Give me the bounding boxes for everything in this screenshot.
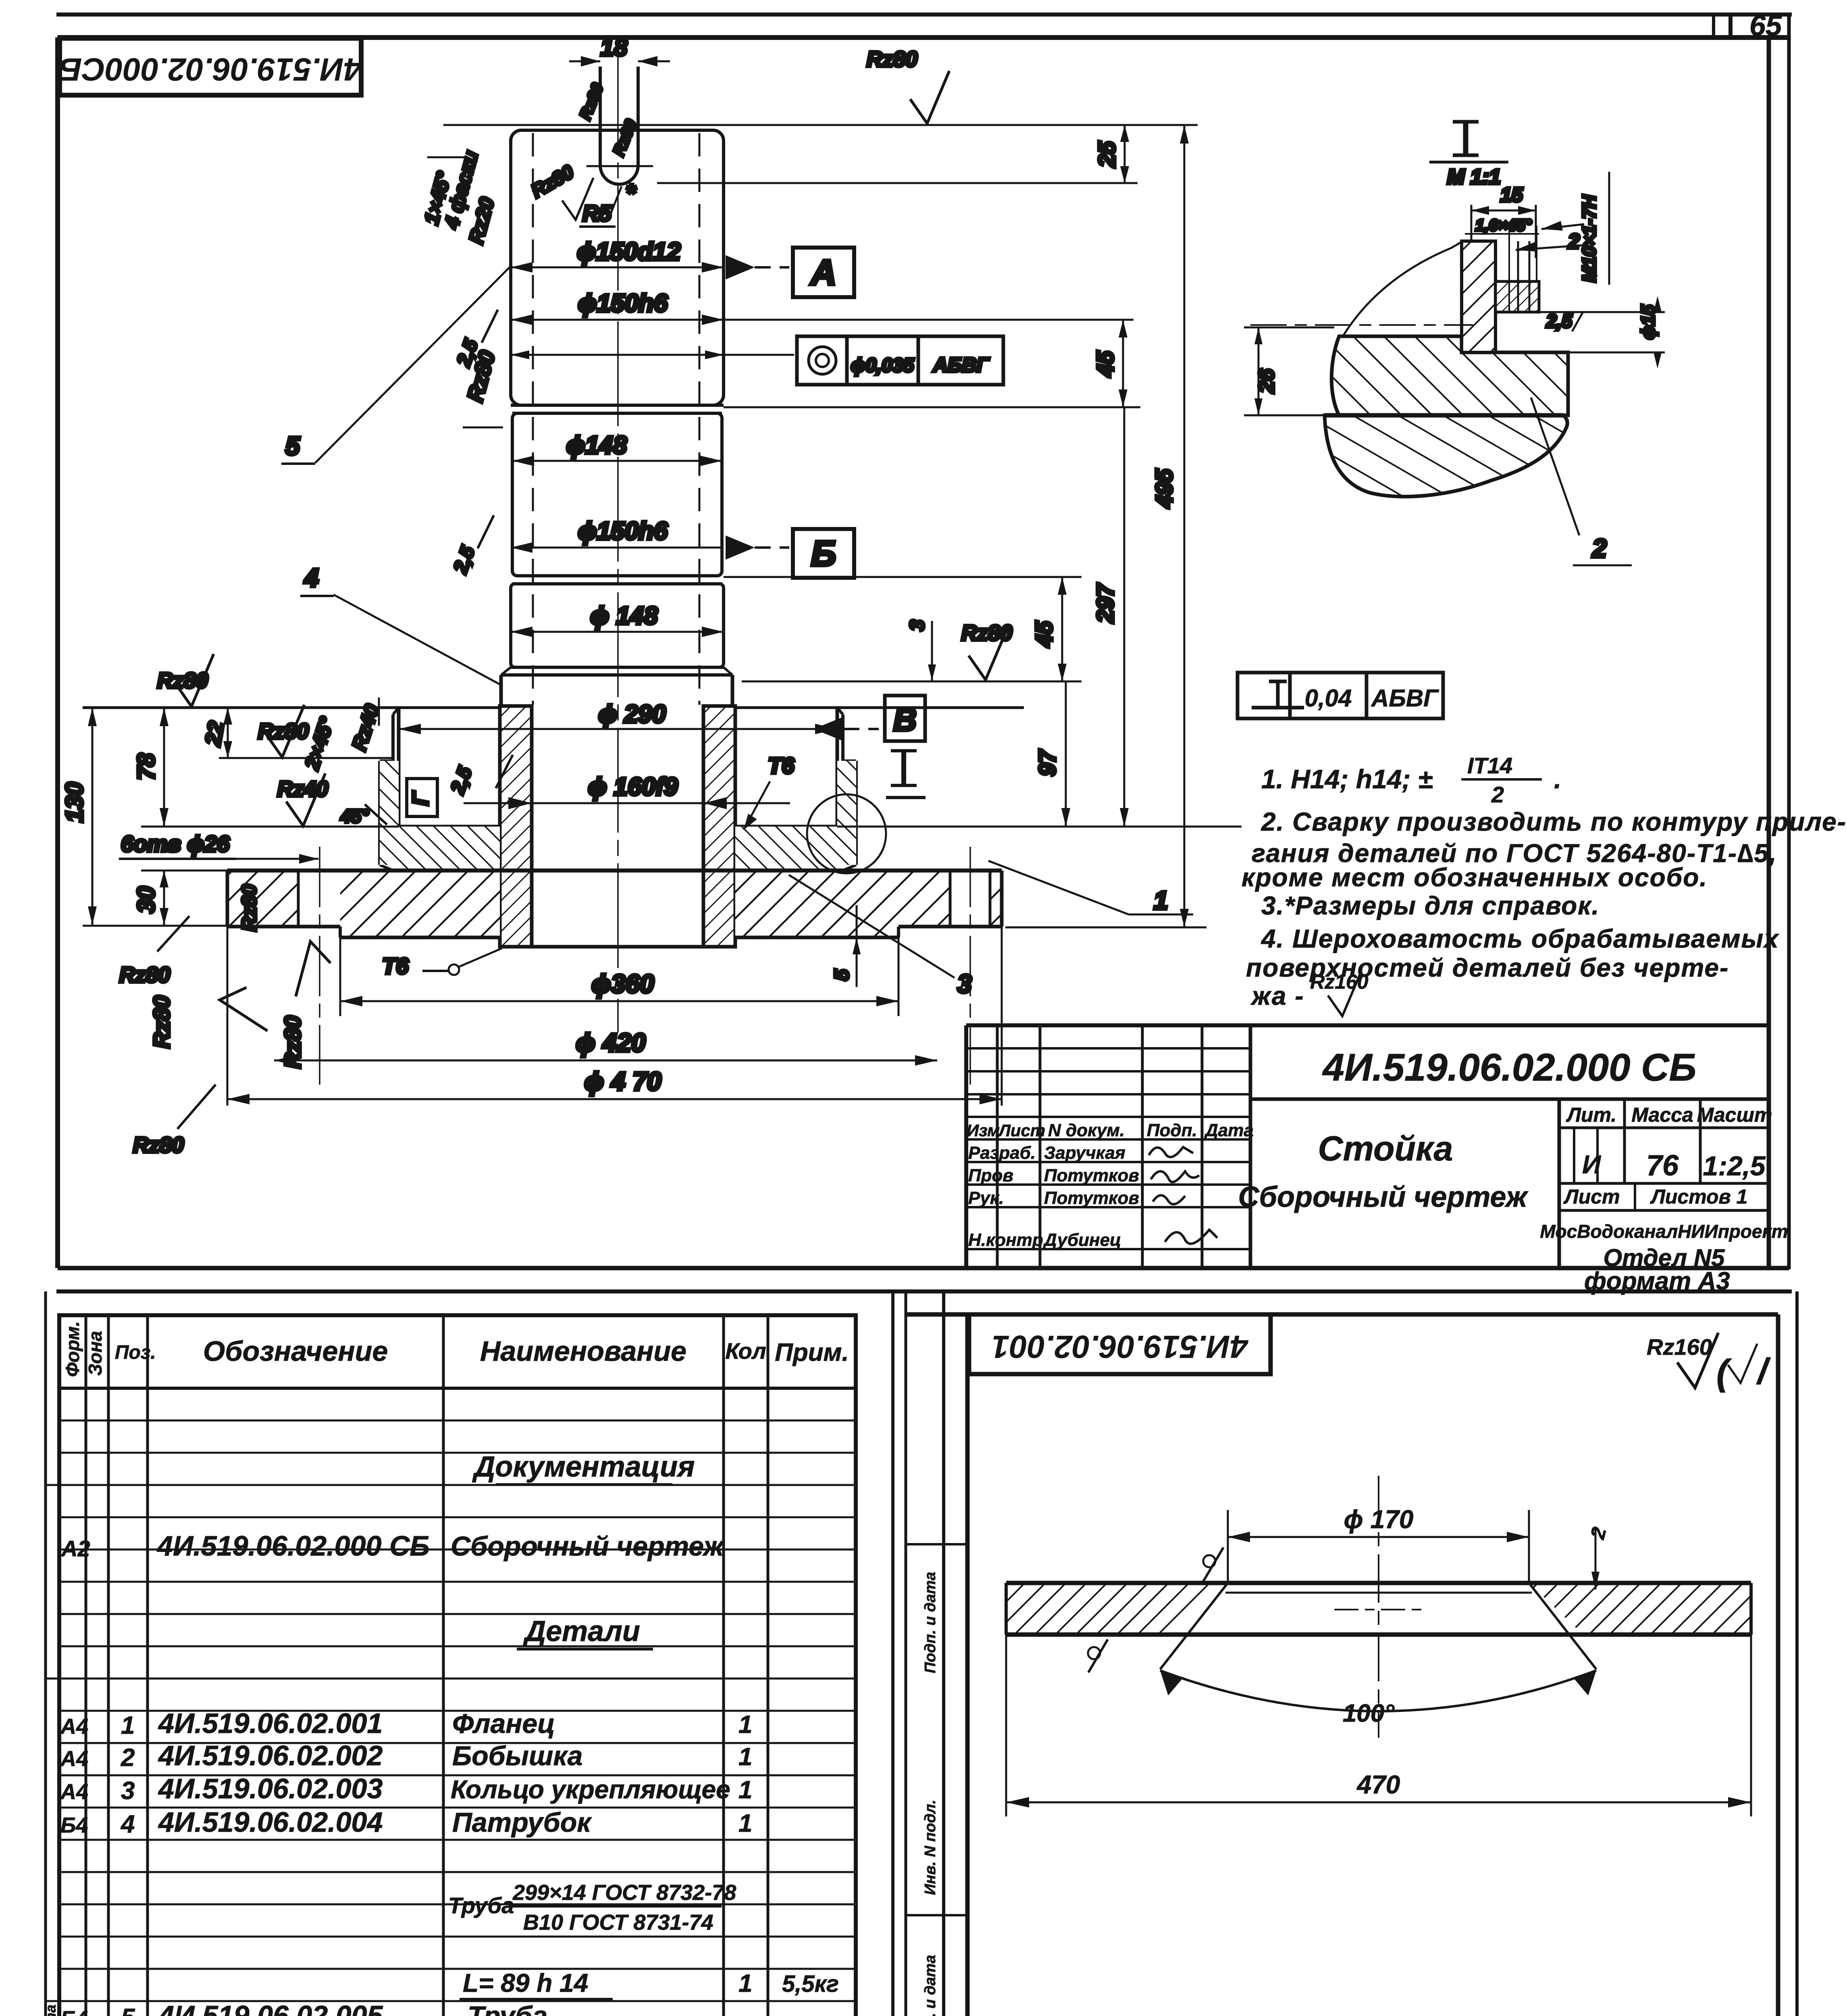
section arrow B [813, 717, 843, 741]
svg-text:4: 4 [120, 1810, 135, 1838]
svg-text:ϕ 160f9: ϕ 160f9 [588, 773, 678, 801]
svg-text:ϕ150d12: ϕ150d12 [577, 238, 680, 266]
phi15 bore lines [1495, 311, 1665, 313]
divider between bottom sheets [891, 1291, 894, 2016]
svg-text:Т6: Т6 [382, 953, 409, 979]
dim 18 over keyway [569, 60, 600, 62]
slot-bottom extension line [657, 182, 1138, 184]
top sheet frame left [55, 37, 60, 1268]
right sheet frame left [965, 1314, 970, 2016]
svg-text:1,6×45°: 1,6×45° [1475, 217, 1532, 234]
svg-text:Т6: Т6 [768, 753, 795, 778]
svg-text:97: 97 [1034, 749, 1061, 776]
svg-text:Разраб.: Разраб. [968, 1143, 1036, 1163]
ring pos.3 hatch right [837, 761, 856, 865]
svg-text:495: 495 [1151, 469, 1177, 508]
tube section 1 (pos.5 pipe top) [511, 130, 724, 405]
svg-text:ϕ0,035: ϕ0,035 [851, 355, 915, 376]
svg-text:В10 ГОСТ 8731-74: В10 ГОСТ 8731-74 [523, 1910, 713, 1935]
svg-text:М 1:1: М 1:1 [1447, 165, 1501, 189]
dim 470 [1005, 1635, 1007, 1816]
pipe pos.4 right wall hatched [703, 706, 735, 947]
svg-text:6отв ϕ26: 6отв ϕ26 [121, 831, 230, 856]
svg-text:4И.519.06.02.001: 4И.519.06.02.001 [158, 1708, 383, 1739]
svg-text:15: 15 [1500, 183, 1523, 206]
svg-text:Rz80: Rz80 [157, 669, 208, 693]
svg-text:1: 1 [1154, 886, 1168, 915]
svg-text:Стойка: Стойка [1318, 1129, 1453, 1168]
svg-text:Детали: Детали [522, 1615, 640, 1647]
small table verticals [996, 1025, 999, 1268]
svg-text:Кольцо укрепляющее: Кольцо укрепляющее [451, 1775, 730, 1804]
keyway slot [599, 67, 602, 165]
svg-text:299×14 ГОСТ 8732-78: 299×14 ГОСТ 8732-78 [512, 1881, 736, 1905]
svg-text:Наименование: Наименование [480, 1335, 686, 1367]
dim 26 [1244, 327, 1334, 329]
svg-text:формат А3: формат А3 [1584, 1267, 1730, 1295]
boss left profile [397, 708, 401, 827]
svg-text:Сборочный чертеж: Сборочный чертеж [1238, 1181, 1529, 1213]
left margin strip dividers [46, 1485, 59, 2016]
svg-text:3: 3 [957, 969, 972, 998]
svg-text:жа -: жа - [1250, 981, 1304, 1010]
svg-text:АБВГ: АБВГ [1371, 685, 1439, 712]
dim phi420 [274, 1060, 937, 1062]
svg-text:IТ14: IТ14 [1467, 753, 1512, 778]
svg-text:ϕ 148: ϕ 148 [590, 602, 658, 630]
collar at tube/pipe joint [511, 666, 724, 669]
svg-text:5: 5 [830, 969, 853, 981]
svg-text:ϕ150h6: ϕ150h6 [578, 517, 668, 545]
svg-text:*: * [626, 179, 636, 207]
svg-text:Подп.: Подп. [1147, 1120, 1197, 1140]
svg-text:Б4: Б4 [60, 2007, 88, 2016]
svg-text:4И.519.06.02.005: 4И.519.06.02.005 [158, 2000, 383, 2016]
svg-text:4И.519.06.02.000 СБ: 4И.519.06.02.000 СБ [156, 1530, 430, 1562]
bottom thick line [1325, 413, 1563, 418]
svg-text:Г: Г [408, 791, 433, 806]
detail circle I [807, 794, 886, 873]
boss pos.2 top line right [735, 706, 1024, 709]
extension lines left [219, 757, 393, 759]
svg-text:М10×1-7Н: М10×1-7Н [1579, 195, 1599, 282]
svg-text:Патрубок: Патрубок [452, 1807, 592, 1838]
dim phi170 [1227, 1510, 1229, 1583]
svg-text:2: 2 [1568, 230, 1580, 253]
svg-text:4И.519.06.02.004: 4И.519.06.02.004 [158, 1806, 383, 1838]
dim 97 [1065, 681, 1067, 827]
svg-text:А4: А4 [60, 1714, 88, 1739]
svg-text:Потутков: Потутков [1044, 1188, 1139, 1208]
dim 78 [163, 708, 165, 827]
svg-text:Подп. и дата: Подп. и дата [922, 1572, 939, 1673]
svg-text:ϕ148: ϕ148 [566, 431, 627, 459]
svg-text:26: 26 [1254, 369, 1279, 394]
svg-text:ϕ 290: ϕ 290 [598, 700, 666, 728]
svg-text:65: 65 [1749, 10, 1782, 42]
pipe pos.4 left wall hatched [500, 706, 532, 947]
weld 2,5 at pipe wall [496, 755, 513, 788]
svg-text:Фланец: Фланец [452, 1708, 555, 1739]
svg-text:5,5кг: 5,5кг [782, 1971, 839, 1997]
svg-text:АБВГ: АБВГ [932, 354, 990, 376]
svg-text:.: . [1554, 764, 1561, 794]
svg-text:4. Шероховатость обрабатываем: 4. Шероховатость обрабатываемых [1260, 924, 1779, 953]
flange center bottom left [340, 936, 500, 939]
svg-text:Подп. и дата: Подп. и дата [922, 1955, 939, 2016]
svg-text:Масса: Масса [1631, 1104, 1693, 1126]
dim 130 [92, 708, 94, 925]
svg-text:130: 130 [61, 782, 88, 823]
svg-text:3.*Размеры для справок.: 3.*Размеры для справок. [1261, 891, 1599, 920]
svg-text:Сборочный чертеж: Сборочный чертеж [451, 1531, 725, 1562]
spec row grid [59, 1420, 856, 2016]
thread bore lines [1517, 241, 1519, 312]
svg-text:Rz80: Rz80 [238, 884, 260, 931]
flange bottom rim right [899, 925, 1002, 929]
svg-text:N докум.: N докум. [1048, 1120, 1125, 1140]
section I mark [901, 751, 906, 785]
groove double line s1/s2 [511, 404, 724, 407]
svg-text:5: 5 [121, 2004, 135, 2016]
cone slope lines extended [1160, 1583, 1228, 1669]
dim 45 lower [1061, 577, 1063, 681]
section I title mark [1463, 122, 1468, 155]
top-left inverted stamp box [60, 38, 361, 95]
svg-text:Листов 1: Листов 1 [1650, 1185, 1748, 1208]
svg-text:Дубинец: Дубинец [1042, 1230, 1121, 1250]
weld mark 2,5 on left edge s1 [482, 310, 498, 343]
dim 25 [1124, 125, 1126, 183]
runout tolerance frame [797, 336, 1003, 385]
svg-text:ϕ 170: ϕ 170 [1344, 1505, 1413, 1534]
flange right edge [1000, 871, 1004, 927]
spec table outer frame [59, 1315, 856, 2016]
svg-text:L= 89 h 14: L= 89 h 14 [463, 1968, 588, 1997]
groove leader to tolerance frame [511, 354, 794, 356]
right sheet frame right [1776, 1314, 1780, 2016]
flange bar hatched left [1006, 1583, 1228, 1635]
top sheet frame top [58, 35, 1790, 40]
top sheet paper edge right [1787, 15, 1791, 1269]
dim 495 [1183, 125, 1186, 927]
flange top edge [227, 868, 1002, 873]
svg-text:Rz40: Rz40 [277, 777, 328, 801]
svg-text:4И.519.06.02.002: 4И.519.06.02.002 [158, 1740, 383, 1771]
svg-text:А: А [810, 252, 836, 292]
top extension line [443, 124, 1198, 126]
dim 2 step [1595, 1527, 1597, 1589]
svg-text:18: 18 [601, 34, 628, 61]
flange bar hatched right [1529, 1583, 1751, 1635]
roughness flag lower [1088, 1639, 1108, 1672]
svg-text:2: 2 [121, 1744, 135, 1772]
svg-text:Rz80: Rz80 [867, 47, 917, 71]
svg-text:Rz80: Rz80 [133, 1133, 184, 1157]
svg-text:2. Сварку производить по кон: 2. Сварку производить по контуру приле- [1261, 807, 1847, 836]
svg-text:Зона: Зона [85, 1331, 106, 1376]
lit massa masshtab [1559, 1127, 1769, 1129]
svg-text:78: 78 [133, 753, 160, 780]
right sheet frame top [906, 1312, 1778, 1317]
svg-text:4И.519.06.02.000СБ: 4И.519.06.02.000СБ [59, 52, 362, 87]
svg-text:Заручкая: Заручкая [1044, 1143, 1125, 1163]
view arrow A [726, 255, 755, 279]
svg-text:Документация: Документация [472, 1451, 695, 1483]
centerline vertical [1378, 1476, 1379, 1738]
svg-text:Поз.: Поз. [115, 1342, 156, 1363]
svg-text:5: 5 [285, 431, 300, 460]
svg-text:Rz160: Rz160 [1647, 1334, 1712, 1360]
svg-text:Инв. N подл.: Инв. N подл. [922, 1800, 939, 1895]
spec header bottom [59, 1387, 856, 1390]
top sheet frame right inner [1767, 37, 1771, 1268]
tube section 3 [511, 584, 724, 667]
svg-text:Бобышка: Бобышка [452, 1741, 582, 1771]
svg-text:1: 1 [738, 1711, 752, 1739]
line below slot [587, 165, 653, 167]
right bottom sheet inverted stamp box [969, 1314, 1271, 1374]
svg-text:1. Н14; h14; ±: 1. Н14; h14; ± [1261, 764, 1433, 794]
dim phi360 [339, 937, 341, 1016]
svg-text:2: 2 [1592, 534, 1607, 563]
roughness flag on slope upper [1203, 1547, 1223, 1581]
svg-text:4И.519.06.02.001: 4И.519.06.02.001 [992, 1329, 1249, 1365]
tube bore dashed line left [532, 133, 534, 705]
spec table column lines [85, 1315, 87, 2016]
svg-text:Лит.: Лит. [1566, 1104, 1617, 1126]
svg-text:Rz80: Rz80 [258, 719, 309, 744]
top sheet frame bottom [58, 1266, 1789, 1270]
svg-text:Подп. и дата: Подп. и дата [42, 2005, 59, 2016]
svg-text:3: 3 [121, 1777, 135, 1805]
svg-text:Кол: Кол [725, 1338, 766, 1364]
svg-text:ϕ150h6: ϕ150h6 [578, 289, 668, 317]
ring pos.3 hatch left [380, 761, 399, 865]
svg-text:Труба: Труба [468, 2001, 547, 2016]
svg-text:А4: А4 [60, 1747, 88, 1771]
svg-text:2: 2 [1491, 782, 1504, 807]
right sheet paper edge right [1795, 1291, 1799, 2016]
flange step right [897, 927, 900, 937]
svg-text:ϕ 420: ϕ 420 [576, 1028, 645, 1057]
svg-text:Rz80: Rz80 [119, 963, 170, 987]
svg-text:470: 470 [1356, 1770, 1400, 1799]
dim 30 [163, 871, 165, 925]
lower fin hatched [1325, 415, 1567, 497]
svg-text:30: 30 [133, 886, 160, 913]
tube bore dashed line right [699, 133, 701, 705]
free cut boundary curve [1342, 242, 1462, 337]
svg-text:И: И [1582, 1150, 1602, 1179]
pipe bottom edge [500, 945, 735, 949]
leader M10 arrow [1516, 245, 1584, 250]
100 degree arc [1160, 1670, 1596, 1711]
svg-text:Дата: Дата [1204, 1120, 1254, 1140]
service strip dividers [906, 1544, 967, 2016]
svg-text:Rz80: Rz80 [149, 996, 174, 1048]
svg-text:76: 76 [1646, 1150, 1679, 1182]
svg-text:25: 25 [1094, 141, 1120, 168]
svg-text:Б4: Б4 [60, 1813, 88, 1837]
svg-text:Изм: Изм [967, 1121, 1000, 1140]
svg-text:Н.контр: Н.контр [968, 1230, 1043, 1250]
svg-text:Пров: Пров [968, 1166, 1013, 1185]
flange left edge [226, 871, 229, 927]
boss right profile [836, 708, 839, 827]
flange pos.1 hatched regions [227, 871, 298, 927]
svg-text:4И.519.06.02.003: 4И.519.06.02.003 [158, 1773, 383, 1804]
svg-text:45°: 45° [340, 806, 369, 827]
svg-text:Труба: Труба [448, 1893, 514, 1918]
svg-text:0,04: 0,04 [1305, 685, 1352, 712]
flange center bottom right [735, 936, 899, 939]
right extension lines [724, 319, 1134, 321]
svg-text:4: 4 [304, 563, 319, 592]
top paper edge line [56, 12, 1792, 17]
sheet number box divider [1728, 15, 1733, 37]
dim 297 [1123, 407, 1125, 827]
svg-text:45: 45 [1031, 621, 1057, 648]
boss pos.2 top line left [83, 706, 500, 709]
small table rows [966, 1047, 1250, 1050]
svg-text:297: 297 [1092, 583, 1119, 623]
svg-text:Рук.: Рук. [968, 1188, 1004, 1208]
svg-text:1: 1 [121, 1712, 135, 1739]
svg-text:Б: Б [811, 533, 836, 573]
dim 22 [227, 708, 229, 758]
svg-text:1: 1 [738, 1776, 752, 1804]
flange bottom rim left [227, 925, 340, 929]
svg-text:3: 3 [906, 620, 928, 631]
signatures scribbles [1149, 1147, 1193, 1157]
bolt hole centerline left [319, 847, 320, 1085]
svg-text:Масшт: Масшт [1697, 1104, 1772, 1126]
svg-text:Обозначение: Обозначение [203, 1335, 388, 1367]
perpendicularity tolerance frame [1238, 673, 1443, 719]
svg-text:А4: А4 [60, 1780, 88, 1804]
tube section 2 [512, 413, 722, 576]
svg-text:ϕ 4 70: ϕ 4 70 [584, 1067, 661, 1096]
bolt hole edges right [949, 871, 952, 927]
svg-text:МосВодоканалНИИпроект: МосВодоканалНИИпроект [1540, 1221, 1788, 1242]
svg-text:В: В [893, 702, 917, 737]
bottom sheets top edge [56, 1289, 1792, 1293]
bolt hole edges left [297, 871, 300, 927]
svg-text:Потутков: Потутков [1044, 1166, 1139, 1185]
centerline of column [617, 50, 619, 1032]
dim phi470 [227, 927, 229, 1106]
svg-text:1:2,5: 1:2,5 [1703, 1151, 1766, 1181]
scale label M1:1 [1429, 161, 1508, 164]
flange step left [339, 927, 342, 937]
svg-text:1: 1 [738, 1970, 752, 1997]
flange body of detail hatched [1331, 336, 1568, 415]
svg-text:1: 1 [738, 1810, 752, 1837]
dim 45 upper [1122, 320, 1124, 407]
svg-text:R5: R5 [582, 200, 612, 226]
weld mark 2,5 on left edge s3 [478, 515, 494, 548]
stud boss hatched [1462, 241, 1495, 352]
svg-text:4И.519.06.02.000 СБ: 4И.519.06.02.000 СБ [1322, 1046, 1697, 1089]
flange bar outline [1006, 1581, 1751, 1585]
bottom-left sheet left paper edge [44, 1291, 47, 2016]
svg-text:Лист: Лист [1563, 1185, 1620, 1208]
title block frame top sheet [966, 1023, 1769, 1027]
svg-text:Форм.: Форм. [62, 1321, 83, 1377]
svg-text:кроме мест обозначенных осо: кроме мест обозначенных особо. [1242, 863, 1708, 892]
2mm land line [1225, 1592, 1532, 1594]
groove double line s2/s3 [512, 582, 722, 585]
svg-text:Прим.: Прим. [775, 1339, 849, 1366]
centerline [1250, 324, 1473, 326]
view box G [407, 779, 437, 816]
svg-text:А2: А2 [60, 1536, 90, 1561]
svg-text:2,5: 2,5 [1546, 310, 1572, 331]
nut block hatched [1495, 281, 1539, 312]
svg-text:45: 45 [1092, 351, 1119, 377]
svg-text:Лист: Лист [998, 1121, 1045, 1140]
svg-text:100°: 100° [1343, 1699, 1395, 1727]
svg-text:22: 22 [201, 719, 229, 748]
svg-text:1: 1 [738, 1743, 752, 1771]
right sheet service strip line [942, 1291, 945, 2016]
svg-text:ϕ360: ϕ360 [591, 969, 654, 998]
bolt hole centerline right [969, 847, 971, 1085]
